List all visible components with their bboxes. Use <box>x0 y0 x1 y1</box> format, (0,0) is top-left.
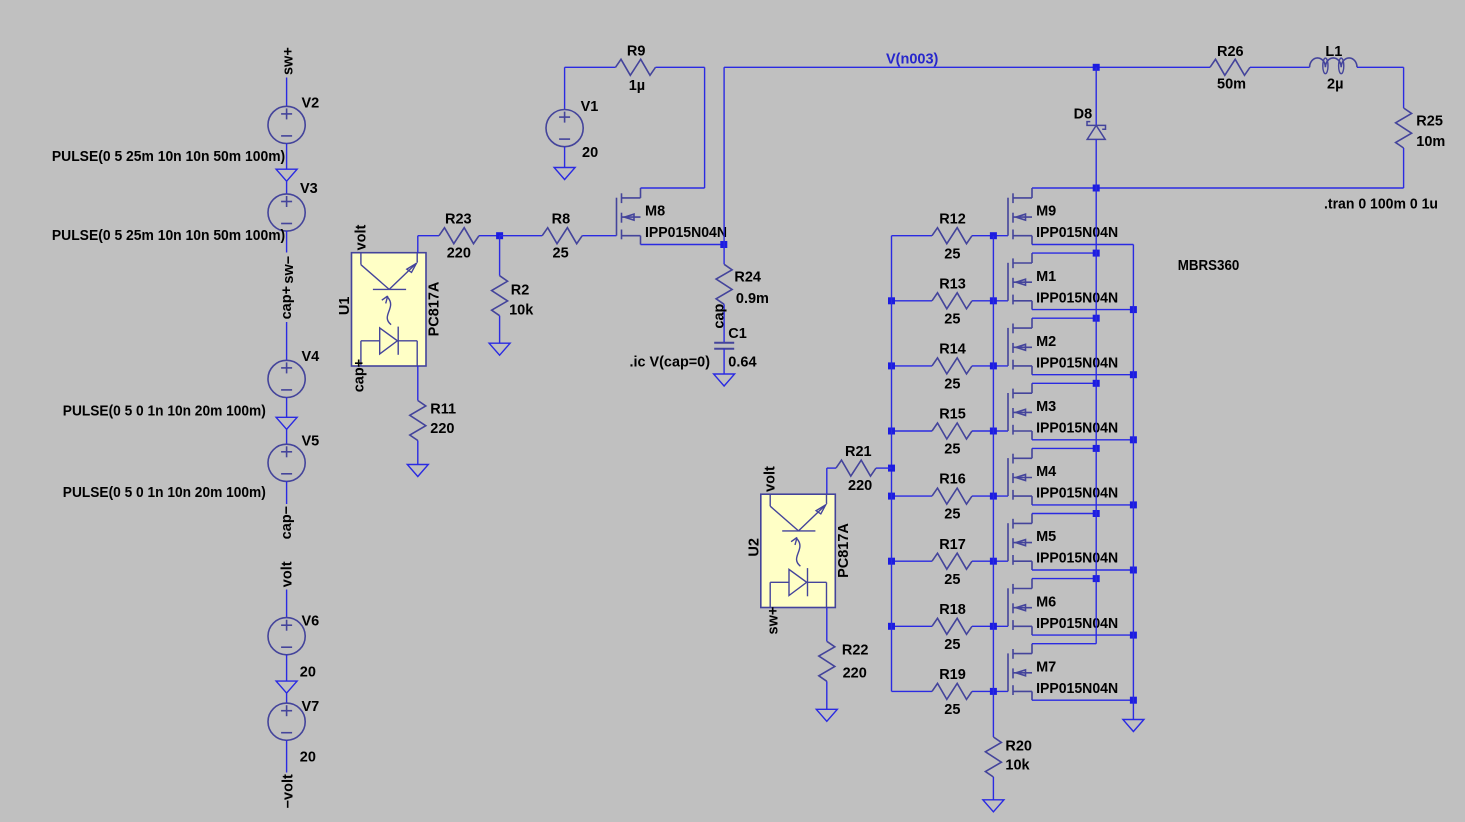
resistor R22 <box>819 641 835 681</box>
node junction gate bus row M5 <box>990 558 997 565</box>
svg-text:25: 25 <box>944 377 960 393</box>
mosfet M1 IPP015N04N <box>1008 253 1032 310</box>
svg-text:M6: M6 <box>1036 594 1056 610</box>
svg-text:.ic V(cap=0): .ic V(cap=0) <box>630 355 711 371</box>
mosfet M3 IPP015N04N <box>1008 383 1032 440</box>
resistor R26 <box>1210 59 1250 75</box>
svg-text:R17: R17 <box>939 537 966 553</box>
wire M2 drain rail <box>1032 317 1096 319</box>
wire M6 source jog <box>1032 634 1133 636</box>
svg-text:U2: U2 <box>747 538 763 557</box>
node junction source bus M6 <box>1130 632 1137 639</box>
wire V2 to ground <box>286 144 288 170</box>
svg-text:10m: 10m <box>1416 134 1445 150</box>
svg-text:IPP015N04N: IPP015N04N <box>645 225 727 241</box>
node junction source bus M4 <box>1130 501 1137 508</box>
svg-text:R23: R23 <box>445 212 472 228</box>
node junction source bus M5 <box>1130 567 1137 574</box>
wire R24 to C1 <box>723 304 725 343</box>
resistor R18 <box>932 618 972 634</box>
svg-text:PULSE(0 5 25m 10n 10n 50m 100m: PULSE(0 5 25m 10n 10n 50m 100m) <box>52 228 285 244</box>
wire gate resistor left bus <box>891 236 893 692</box>
svg-text:R8: R8 <box>552 212 571 228</box>
wire left bus to R18 <box>892 625 933 627</box>
svg-text:M2: M2 <box>1036 334 1056 350</box>
wire R14 to gate bus <box>972 365 1008 367</box>
wire R12 to gate bus <box>972 235 1008 237</box>
opto-coupler U1 PC817A body <box>352 253 427 366</box>
diode D8 MBRS360 schottky <box>1087 122 1106 140</box>
resistor R21 <box>836 460 876 476</box>
svg-text:IPP015N04N: IPP015N04N <box>1036 681 1118 697</box>
svg-text:M3: M3 <box>1036 399 1056 415</box>
svg-text:50m: 50m <box>1217 77 1246 93</box>
svg-text:R14: R14 <box>939 342 966 358</box>
svg-text:20: 20 <box>300 664 316 680</box>
wire R20 to ground <box>992 777 994 800</box>
node junction M8 source / cap node <box>720 241 727 248</box>
wire left bus to R13 <box>892 300 933 302</box>
voltage source V7 <box>268 703 305 740</box>
svg-text:MBRS360: MBRS360 <box>1178 258 1240 274</box>
svg-text:20: 20 <box>582 145 598 161</box>
wire left bus to R17 <box>892 560 933 562</box>
wire V4 to ground <box>286 398 288 418</box>
ground below V2 <box>276 169 297 181</box>
svg-text:PULSE(0 5 0 1n 10n 20m 100m): PULSE(0 5 0 1n 10n 20m 100m) <box>63 485 266 501</box>
ground below source bus <box>1123 720 1144 732</box>
node junction gate bus row M3 <box>990 428 997 435</box>
svg-text:M9: M9 <box>1036 204 1056 220</box>
wire M8 drain jog <box>641 187 705 189</box>
svg-text:V1: V1 <box>581 99 599 115</box>
ground below R11 <box>407 465 428 477</box>
svg-text:sw−: sw− <box>281 256 297 284</box>
svg-text:PULSE(0 5 0 1n 10n 20m 100m): PULSE(0 5 0 1n 10n 20m 100m) <box>63 404 266 420</box>
resistor R14 <box>932 358 972 374</box>
svg-text:R12: R12 <box>939 211 966 227</box>
wire drain rail <box>1032 187 1404 189</box>
wire V1 to ground <box>564 147 566 168</box>
mosfet M9 IPP015N04N <box>1008 188 1032 245</box>
mosfet M8 IPP015N04N <box>617 188 641 245</box>
node junction drain bus M4 <box>1093 445 1100 452</box>
svg-text:M1: M1 <box>1036 269 1056 285</box>
voltage source V3 <box>268 194 305 231</box>
node junction left bus row R18 <box>888 623 895 630</box>
inductor L1 <box>1310 58 1357 67</box>
wire drain bus vertical <box>1095 188 1097 644</box>
svg-text:V6: V6 <box>302 613 320 629</box>
wire R21 left <box>827 467 836 469</box>
node junction left bus / R21 <box>888 465 895 472</box>
node junction drain bus M1 <box>1093 250 1100 257</box>
node junction gate bus row M2 <box>990 362 997 369</box>
voltage source V1 <box>546 110 583 147</box>
svg-text:M4: M4 <box>1036 464 1056 480</box>
resistor R23 <box>439 228 479 244</box>
wire volt to V6 <box>286 590 288 618</box>
svg-text:25: 25 <box>944 246 960 262</box>
svg-text:10k: 10k <box>509 302 534 318</box>
resistor R25 <box>1396 108 1412 148</box>
wire V3 to sw- label <box>286 231 288 252</box>
resistor R20 <box>985 737 1001 777</box>
svg-text:IPP015N04N: IPP015N04N <box>1036 421 1118 437</box>
svg-text:IPP015N04N: IPP015N04N <box>1036 355 1118 371</box>
svg-text:cap+: cap+ <box>351 359 367 392</box>
wire M6 drain rail <box>1032 578 1096 580</box>
svg-text:PC817A: PC817A <box>427 281 443 336</box>
wire ground to V5 <box>286 429 288 444</box>
svg-text:M8: M8 <box>645 204 665 220</box>
svg-text:220: 220 <box>843 665 867 681</box>
svg-text:V4: V4 <box>302 349 320 365</box>
node junction source bus M2 <box>1130 371 1137 378</box>
wire R16 to gate bus <box>972 495 1008 497</box>
node junction left bus row R16 <box>888 493 895 500</box>
mosfet M6 IPP015N04N <box>1008 579 1032 636</box>
svg-text:PC817A: PC817A <box>836 523 852 578</box>
opto U1 phototransistor <box>361 253 417 290</box>
wire M4 drain rail <box>1032 447 1096 449</box>
svg-text:220: 220 <box>447 246 471 262</box>
wire gate bus vertical <box>992 236 994 737</box>
ground below R22 <box>816 709 837 721</box>
svg-text:R21: R21 <box>845 444 872 460</box>
svg-text:R11: R11 <box>430 401 456 417</box>
wire node to R8 <box>500 235 543 237</box>
node junction left bus row R14 <box>888 362 895 369</box>
svg-text:R2: R2 <box>511 282 530 298</box>
svg-text:V3: V3 <box>300 181 318 197</box>
svg-text:R22: R22 <box>842 642 869 658</box>
svg-text:2µ: 2µ <box>1327 77 1343 93</box>
svg-text:R18: R18 <box>939 602 966 618</box>
svg-text:0.9m: 0.9m <box>736 291 769 307</box>
wire sw+ to V2 <box>286 78 288 107</box>
voltage source V4 <box>268 360 305 397</box>
diode D8 cathode wire <box>1095 67 1097 125</box>
resistor R15 <box>932 423 972 439</box>
wire node to R2 <box>499 236 501 276</box>
svg-text:sw+: sw+ <box>280 47 296 75</box>
resistor R11 <box>410 401 426 441</box>
wire R26 to L1 <box>1250 66 1310 68</box>
wire R23 to node <box>479 235 500 237</box>
resistor R8 <box>542 228 582 244</box>
mosfet M2 IPP015N04N <box>1008 318 1032 375</box>
node junction left bus row R13 <box>888 297 895 304</box>
wire R25 bottom <box>1403 148 1405 188</box>
node junction left bus row R17 <box>888 558 895 565</box>
svg-text:V(n003): V(n003) <box>886 52 939 68</box>
resistor R9 <box>616 59 656 75</box>
node junction source bus M3 <box>1130 436 1137 443</box>
wire M7 source jog <box>1032 699 1133 701</box>
wire M3 drain rail <box>1032 382 1096 384</box>
wire R18 to gate bus <box>972 625 1008 627</box>
svg-text:25: 25 <box>944 311 960 327</box>
voltage source V6 <box>268 618 305 655</box>
node junction R23/R8/R2 <box>496 232 503 239</box>
wire M1 source jog <box>1032 309 1133 311</box>
wire left bus to R16 <box>892 495 933 497</box>
wire M8 source jog <box>641 244 724 246</box>
wire U1 cathode to R11 <box>417 366 419 401</box>
wire V6 to ground <box>286 655 288 681</box>
svg-text:R25: R25 <box>1416 114 1443 130</box>
wire source bus vertical <box>1132 245 1134 720</box>
wire left bus to R14 <box>892 365 933 367</box>
ground below R20 <box>983 800 1004 812</box>
node junction drain rail / D8 anode <box>1093 185 1100 192</box>
ground below C1 <box>714 374 735 386</box>
svg-text:25: 25 <box>944 637 960 653</box>
svg-text:C1: C1 <box>728 326 747 342</box>
wire cap+ to V4 <box>286 322 288 360</box>
node junction source bus M7 <box>1130 697 1137 704</box>
node junction gate bus row M6 <box>990 623 997 630</box>
svg-text:IPP015N04N: IPP015N04N <box>1036 290 1118 306</box>
svg-text:M5: M5 <box>1036 529 1056 545</box>
svg-text:R16: R16 <box>939 472 966 488</box>
capacitor C1 <box>714 343 734 349</box>
svg-text:25: 25 <box>944 702 960 718</box>
svg-text:R13: R13 <box>939 276 966 292</box>
resistor R13 <box>932 293 972 309</box>
svg-text:M7: M7 <box>1036 659 1056 675</box>
node junction gate bus row M4 <box>990 493 997 500</box>
svg-text:25: 25 <box>944 507 960 523</box>
wire left bus to R19 <box>892 690 933 692</box>
wire R25 top <box>1403 67 1405 108</box>
svg-text:IPP015N04N: IPP015N04N <box>1036 616 1118 632</box>
node junction source bus M1 <box>1130 306 1137 313</box>
wire left bus to R12 <box>892 235 933 237</box>
wire M4 source jog <box>1032 504 1133 506</box>
resistor R19 <box>932 683 972 699</box>
ground below R2 <box>489 343 510 355</box>
svg-text:.tran 0 100m 0 1u: .tran 0 100m 0 1u <box>1324 197 1438 213</box>
opto U1 light arrow <box>382 296 391 325</box>
resistor R16 <box>932 488 972 504</box>
svg-text:V2: V2 <box>302 96 320 112</box>
node junction rail / D8 <box>1093 64 1100 71</box>
opto U2 light arrow <box>791 538 800 567</box>
mosfet M4 IPP015N04N <box>1008 448 1032 505</box>
wire R11 to ground <box>417 441 419 465</box>
node junction drain bus M3 <box>1093 380 1100 387</box>
wire R8 to M8 gate <box>582 235 616 237</box>
resistor R17 <box>932 553 972 569</box>
wire V1 to R9 <box>564 67 566 109</box>
svg-text:R15: R15 <box>939 407 966 423</box>
wire V(n003) vertical to R24 <box>723 67 725 264</box>
wire M5 drain rail <box>1032 513 1096 515</box>
wire gate bus to R20 <box>992 736 994 738</box>
svg-text:sw+: sw+ <box>766 607 782 635</box>
wire R21 right <box>876 467 892 469</box>
svg-text:volt: volt <box>353 224 369 250</box>
wire R9 left <box>565 66 616 68</box>
wire M3 source jog <box>1032 439 1133 441</box>
wire ground to V3 <box>286 181 288 194</box>
svg-text:IPP015N04N: IPP015N04N <box>1036 551 1118 567</box>
wire M9 source jog <box>1032 244 1133 246</box>
wire R9 right <box>656 66 705 68</box>
resistor R24 <box>716 264 732 304</box>
wire V7 to -volt label <box>286 740 288 772</box>
opto U2 phototransistor <box>770 494 826 531</box>
wire M5 source jog <box>1032 569 1133 571</box>
ground below V6 <box>276 681 297 693</box>
svg-text:L1: L1 <box>1325 44 1342 60</box>
node junction gate bus row M9 <box>990 232 997 239</box>
ground below V4 <box>276 417 297 429</box>
wire U1 emitter to R23 <box>417 236 419 253</box>
node junction drain bus M6 <box>1093 575 1100 582</box>
wire R2 to ground <box>499 316 501 344</box>
svg-text:R26: R26 <box>1217 44 1244 60</box>
node junction left bus row R15 <box>888 428 895 435</box>
svg-text:20: 20 <box>300 749 316 765</box>
opto U1 LED <box>361 327 417 366</box>
wire R19 to gate bus <box>972 690 1008 692</box>
wire V5 to cap- label <box>286 481 288 504</box>
svg-text:10k: 10k <box>1005 758 1030 774</box>
wire M7 drain rail <box>1032 643 1096 645</box>
svg-text:R9: R9 <box>627 43 646 59</box>
svg-text:V5: V5 <box>302 433 320 449</box>
wire M1 drain rail <box>1032 252 1096 254</box>
svg-text:cap: cap <box>711 303 727 328</box>
svg-text:V7: V7 <box>302 699 320 715</box>
opto U2 LED <box>770 568 826 607</box>
wire R22 to ground <box>826 681 828 709</box>
svg-text:R20: R20 <box>1005 739 1032 755</box>
wire R21 to U2 emitter <box>826 468 828 494</box>
node junction drain bus M5 <box>1093 510 1100 517</box>
wire ground to V7 <box>286 693 288 703</box>
svg-text:cap−: cap− <box>279 506 295 539</box>
node junction gate bus row M7 <box>990 688 997 695</box>
svg-text:25: 25 <box>553 246 569 262</box>
svg-text:220: 220 <box>430 421 454 437</box>
svg-text:IPP015N04N: IPP015N04N <box>1036 225 1118 241</box>
svg-text:0.64: 0.64 <box>728 355 756 371</box>
voltage source V5 <box>268 444 305 481</box>
svg-text:R24: R24 <box>734 270 761 286</box>
wire V(n003) rail <box>724 66 1210 68</box>
voltage source V2 <box>268 106 305 143</box>
svg-text:U1: U1 <box>337 297 353 316</box>
svg-text:1µ: 1µ <box>629 78 645 94</box>
node junction drain bus M2 <box>1093 315 1100 322</box>
wire R15 to gate bus <box>972 430 1008 432</box>
wire R23 left <box>418 235 439 237</box>
svg-text:220: 220 <box>848 478 872 494</box>
mosfet M5 IPP015N04N <box>1008 514 1032 571</box>
wire R17 to gate bus <box>972 560 1008 562</box>
svg-text:D8: D8 <box>1074 106 1093 122</box>
svg-text:R19: R19 <box>939 667 966 683</box>
wire left bus to R15 <box>892 430 933 432</box>
node junction gate bus row M1 <box>990 297 997 304</box>
ground below V1 <box>554 168 575 180</box>
resistor R2 <box>492 276 508 316</box>
diode D8 anode wire <box>1095 139 1097 188</box>
svg-text:−volt: −volt <box>281 774 297 808</box>
opto-coupler U2 PC817A body <box>761 494 836 607</box>
wire M2 source jog <box>1032 374 1133 376</box>
svg-text:PULSE(0 5 25m 10n 10n 50m 100m: PULSE(0 5 25m 10n 10n 50m 100m) <box>52 149 285 165</box>
wire C1 to ground <box>723 349 725 374</box>
mosfet M7 IPP015N04N <box>1008 644 1032 701</box>
svg-text:25: 25 <box>944 442 960 458</box>
wire L1 to R25 <box>1357 66 1404 68</box>
svg-text:IPP015N04N: IPP015N04N <box>1036 486 1118 502</box>
svg-text:volt: volt <box>280 561 296 587</box>
wire M8 drain riser to R9 <box>704 67 706 188</box>
resistor R12 <box>932 228 972 244</box>
svg-text:volt: volt <box>763 466 779 492</box>
svg-text:cap+: cap+ <box>279 286 295 319</box>
wire U2 cathode to R22 <box>826 608 828 642</box>
svg-text:25: 25 <box>944 572 960 588</box>
wire R13 to gate bus <box>972 300 1008 302</box>
